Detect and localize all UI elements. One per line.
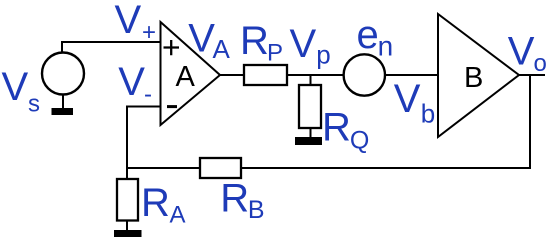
wire RA to ground: [126, 220, 128, 231]
svg-text:b: b: [421, 98, 435, 128]
resistor RA: [117, 179, 138, 221]
svg-text:R: R: [220, 176, 249, 220]
source Vs: [42, 53, 84, 95]
label RB: [220, 176, 264, 224]
node Vb: [394, 77, 435, 129]
wire V- input: [127, 107, 161, 169]
svg-text:o: o: [534, 50, 547, 77]
svg-text:V: V: [290, 22, 317, 66]
resistor RB: [200, 158, 241, 178]
source en: [344, 54, 385, 95]
label RA: [141, 181, 186, 229]
amplifier B: [438, 14, 519, 137]
svg-text:V: V: [118, 60, 145, 104]
label V-: [118, 60, 152, 108]
svg-text:Q: Q: [350, 127, 369, 155]
wire B output: [519, 74, 545, 76]
svg-text:R: R: [141, 181, 170, 225]
wire RP to en: [287, 74, 345, 76]
label Vs: [2, 65, 41, 117]
ground (Vs): [52, 108, 74, 115]
svg-text:R: R: [322, 105, 351, 149]
wire A output: [220, 74, 245, 76]
wire Vs to ground: [62, 94, 64, 109]
wire en to B: [385, 74, 439, 76]
svg-text:p: p: [316, 39, 330, 69]
svg-text:B: B: [464, 62, 483, 94]
wire feedback: [127, 167, 530, 169]
label RP: [240, 19, 283, 67]
svg-text:V: V: [2, 65, 29, 109]
wire feedback drop: [529, 75, 531, 169]
svg-text:A: A: [213, 34, 231, 64]
svg-text:R: R: [240, 19, 269, 63]
wire Vs to V+ input: [62, 42, 161, 53]
wire RA riser: [126, 168, 128, 180]
ground (RQ): [295, 137, 322, 145]
resistor RQ: [299, 85, 321, 128]
node Vo: [508, 30, 547, 78]
label VA: [188, 17, 230, 65]
label RQ: [322, 105, 369, 154]
ground (RA): [114, 230, 142, 237]
wire RQ to ground: [310, 128, 312, 138]
svg-text:B: B: [248, 196, 265, 224]
svg-text:P: P: [267, 40, 283, 67]
svg-text:A: A: [170, 202, 186, 229]
svg-text:e: e: [357, 13, 379, 57]
svg-text:V: V: [188, 17, 215, 61]
svg-text:+: +: [142, 19, 156, 46]
svg-text:V: V: [508, 30, 535, 74]
svg-text:n: n: [378, 30, 394, 61]
svg-text:-: -: [144, 81, 152, 108]
svg-text:s: s: [28, 90, 40, 117]
label V+: [115, 0, 157, 46]
resistor RP: [244, 65, 287, 85]
svg-text:A: A: [176, 61, 196, 93]
node Vp: [290, 22, 331, 69]
op-amp A: [161, 22, 221, 125]
svg-text:V: V: [394, 77, 421, 121]
wire RQ riser: [310, 75, 312, 86]
svg-text:V: V: [115, 0, 142, 42]
label en: [357, 13, 394, 62]
